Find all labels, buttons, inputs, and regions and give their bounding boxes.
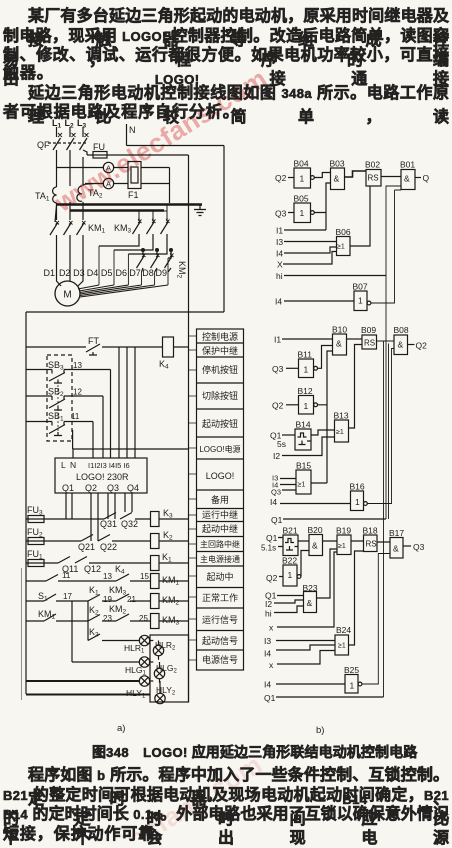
block B18	[364, 535, 378, 552]
svg-text:I2: I2	[265, 599, 272, 609]
svg-text:1: 1	[355, 497, 360, 507]
svg-text:21: 21	[127, 595, 136, 604]
svg-text:B01: B01	[400, 160, 415, 170]
wire motor fan connections	[78, 285, 168, 297]
block B07	[354, 291, 371, 311]
svg-text:I1I2I3 I4I5 I6: I1I2I3 I4I5 I6	[88, 461, 130, 470]
svg-text:5s: 5s	[277, 439, 286, 449]
svg-text:HLR2: HLR2	[155, 640, 176, 652]
relay coil K3	[151, 512, 189, 527]
svg-text:19: 19	[103, 595, 112, 604]
svg-text:FU2: FU2	[27, 527, 43, 539]
wire B05 to B03 I1 join	[284, 183, 331, 230]
wire B24 inputs I3 I4 x	[276, 641, 335, 665]
block B20	[309, 535, 323, 556]
wire B21 to B20 to B19 to B18 to B17	[298, 541, 390, 542]
wire LOGO upper pins	[73, 347, 189, 458]
svg-text:13: 13	[103, 572, 112, 581]
wire B04 to B03	[314, 173, 330, 178]
svg-text:LOGO! 230R: LOGO! 230R	[76, 472, 129, 482]
svg-text:起动按钮: 起动按钮	[202, 418, 238, 429]
block B11	[286, 359, 318, 378]
lamp HLY2	[150, 641, 166, 704]
contactor coil KM2	[151, 594, 189, 609]
svg-text:&: &	[393, 544, 399, 554]
wire B06 out to B02 R	[350, 186, 370, 246]
block B22	[279, 565, 301, 586]
block B09	[362, 335, 377, 349]
svg-text:15: 15	[140, 572, 149, 581]
svg-text:Q12: Q12	[84, 564, 101, 574]
wire lamp row HLG	[72, 601, 139, 662]
svg-text:&: &	[398, 340, 404, 350]
fuse FU1	[26, 560, 58, 567]
svg-text:D2: D2	[59, 268, 71, 278]
svg-text:K1: K1	[89, 585, 99, 597]
svg-text:I4: I4	[270, 497, 277, 507]
motor M1	[55, 281, 80, 306]
svg-text:K3: K3	[163, 508, 173, 520]
contactor coil KM1	[151, 574, 189, 589]
contactor KM3 contacts	[133, 218, 169, 236]
svg-text:I2: I2	[273, 451, 280, 461]
svg-text:B08: B08	[394, 325, 409, 335]
wire B07 input and out	[284, 190, 401, 303]
svg-text:KM3: KM3	[162, 615, 180, 627]
block B15	[296, 470, 311, 494]
svg-text:B25: B25	[344, 665, 359, 675]
block B12	[286, 396, 318, 415]
wire B13 to B09 R	[349, 345, 363, 429]
svg-text:1: 1	[304, 365, 309, 375]
labels section3 blocks	[261, 525, 425, 703]
svg-text:X: X	[277, 260, 283, 270]
breaker QF cross marks	[58, 133, 89, 137]
svg-text:&: &	[336, 339, 342, 349]
svg-text:I3: I3	[276, 237, 283, 247]
svg-text:I4: I4	[275, 297, 282, 307]
wire B10 to B09	[347, 338, 363, 340]
svg-text:Q2: Q2	[266, 573, 278, 583]
wire ammeter row 2	[85, 183, 170, 185]
wire lamp row HLY heavy	[26, 680, 139, 682]
contact Q31 Q32 row	[104, 513, 151, 520]
svg-text:B21: B21	[283, 526, 298, 536]
svg-text:Q3: Q3	[107, 483, 119, 493]
svg-text:K4: K4	[159, 359, 169, 371]
svg-text:起动中继: 起动中继	[202, 523, 238, 534]
svg-text:切除按钮: 切除按钮	[202, 390, 238, 401]
svg-text:Q1: Q1	[264, 693, 276, 703]
ammeter PA1	[103, 162, 113, 172]
svg-text:FU1: FU1	[27, 549, 43, 561]
svg-text:L1: L1	[52, 118, 62, 130]
block B16	[351, 491, 368, 511]
svg-text:SB3: SB3	[48, 360, 64, 372]
pushbutton SB2	[26, 396, 103, 458]
svg-text:&: &	[307, 598, 313, 608]
svg-text:B17: B17	[389, 528, 404, 538]
wire B24 to B18 R	[349, 551, 364, 645]
svg-text:停机按钮: 停机按钮	[202, 364, 238, 375]
wire x to B19	[277, 552, 337, 627]
relay coil K4	[163, 337, 174, 357]
svg-text:a): a)	[117, 723, 125, 734]
labels lamps	[124, 640, 177, 700]
svg-text:12: 12	[73, 388, 82, 397]
ground	[194, 205, 206, 216]
block B23	[304, 592, 317, 613]
svg-text:Q3: Q3	[275, 209, 287, 219]
svg-text:B20: B20	[308, 525, 323, 535]
contact Q21 Q22 row	[81, 535, 151, 542]
svg-text:1: 1	[304, 401, 309, 411]
svg-text:Q3: Q3	[272, 364, 284, 374]
svg-text:KM3: KM3	[114, 223, 132, 235]
block B14 timer	[282, 429, 311, 450]
svg-text:HLY2: HLY2	[156, 685, 176, 697]
svg-text:1: 1	[288, 570, 293, 580]
block B05	[288, 203, 314, 223]
svg-text:D3: D3	[73, 268, 85, 278]
svg-text:B19: B19	[336, 526, 351, 536]
svg-text:B14: B14	[296, 420, 311, 430]
svg-text:HLY1: HLY1	[126, 688, 146, 700]
svg-text:KM2: KM2	[109, 604, 127, 616]
contact KM1 K2 KM2 row KM3 coil	[26, 614, 151, 621]
ammeter PA2	[103, 178, 113, 188]
wire B22 to B20	[301, 551, 309, 577]
svg-text:LOGO!: LOGO!	[206, 471, 235, 481]
svg-text:D7: D7	[129, 268, 141, 278]
label column texts	[199, 331, 240, 665]
wire B23 to B19	[317, 549, 338, 598]
wire B16 input out to B08	[280, 349, 394, 504]
bus heavy 1	[57, 203, 203, 205]
block B02	[366, 170, 381, 187]
rail L right side	[188, 155, 190, 702]
wire B14 to B13	[311, 430, 335, 435]
svg-text:F1: F1	[128, 190, 139, 200]
wire control loop top	[26, 312, 224, 694]
svg-text:RS: RS	[366, 540, 377, 549]
svg-text:B13: B13	[334, 411, 349, 421]
svg-text:KM1: KM1	[162, 575, 180, 587]
svg-text:Q1: Q1	[266, 533, 278, 543]
svg-text:B03: B03	[330, 159, 345, 169]
svg-text:K4: K4	[115, 564, 125, 576]
labels D1-D9	[44, 268, 168, 278]
svg-text:D5: D5	[101, 268, 113, 278]
svg-text:LOGO!电源: LOGO!电源	[199, 444, 240, 454]
svg-text:B16: B16	[350, 482, 365, 492]
svg-text:L3: L3	[77, 118, 87, 130]
svg-text:Q32: Q32	[121, 519, 138, 529]
svg-text:B09: B09	[361, 325, 376, 335]
labels section2 blocks	[270, 325, 427, 526]
svg-text:Q3: Q3	[271, 488, 281, 497]
svg-text:I3: I3	[264, 636, 271, 646]
svg-text:SB2: SB2	[48, 387, 64, 399]
svg-text:1: 1	[350, 681, 355, 691]
paragraph text top	[28, 2, 449, 50]
svg-text:D8: D8	[142, 268, 154, 278]
block B10	[333, 334, 347, 355]
labels section1 blocks	[275, 159, 430, 307]
svg-text:&: &	[312, 541, 318, 551]
block B17	[390, 538, 411, 559]
svg-text:Q: Q	[423, 173, 430, 183]
wire B15 inputs I3 I4 Q3	[280, 479, 296, 491]
svg-text:B06: B06	[336, 227, 351, 237]
svg-text:RS: RS	[364, 339, 375, 348]
svg-text:I4: I4	[264, 680, 271, 690]
svg-text:hi: hi	[276, 271, 283, 281]
watermark www.elecfans.com main	[49, 63, 273, 218]
node labels L1 L2 L3	[52, 118, 87, 130]
svg-text:主回路中继: 主回路中继	[200, 539, 240, 549]
svg-text:&: &	[334, 174, 340, 184]
wire B03 to B02	[345, 171, 367, 177]
svg-text:I4: I4	[276, 249, 283, 259]
svg-text:KM2: KM2	[176, 261, 188, 279]
lamp HLR1	[139, 635, 149, 645]
wire KM3 top feeders	[139, 205, 167, 218]
svg-text:Q2: Q2	[85, 483, 97, 493]
svg-text:保护中继: 保护中继	[202, 345, 238, 356]
svg-text:KM2: KM2	[162, 595, 180, 607]
svg-text:x: x	[269, 660, 274, 670]
svg-text:1: 1	[358, 296, 363, 306]
block B06	[337, 237, 351, 256]
contact 11 and K4 row KM1 coil	[26, 574, 151, 581]
wire D-row feeders D4-D9	[99, 246, 168, 285]
svg-text:≥1: ≥1	[337, 244, 345, 251]
block B01	[401, 170, 421, 190]
svg-text:KM3: KM3	[109, 585, 127, 597]
svg-text:Q31: Q31	[100, 519, 117, 529]
svg-text:备用: 备用	[211, 494, 229, 505]
svg-text:正常工作: 正常工作	[202, 592, 238, 603]
block B25	[345, 675, 362, 694]
pushbutton box dashed	[47, 355, 72, 441]
contactor KM3 cross marks	[138, 220, 170, 224]
breaker QF mechanical link	[48, 142, 88, 144]
svg-text:TA1: TA1	[35, 191, 50, 203]
wire Q1 sec2 bottom	[283, 518, 386, 520]
block B08	[394, 335, 415, 355]
svg-text:起动中: 起动中	[206, 571, 233, 582]
pushbutton SB1	[26, 422, 93, 459]
switch S1 and K1 KM3 contacts row KM2 coil	[26, 594, 151, 601]
svg-text:I1: I1	[274, 335, 281, 345]
label column ticks	[189, 336, 197, 660]
svg-text:Q21: Q21	[78, 542, 95, 552]
svg-text:TA2: TA2	[88, 188, 103, 200]
svg-text:A: A	[106, 180, 111, 189]
fuse FU	[87, 152, 189, 159]
current transformer TA2	[77, 184, 95, 202]
lamp HLG2	[154, 662, 164, 683]
svg-text:S1: S1	[38, 591, 48, 603]
svg-text:1: 1	[300, 208, 305, 218]
wire B23 inputs	[274, 596, 304, 613]
svg-text:B07: B07	[353, 282, 368, 292]
wire B06 inputs I3 I4 X	[283, 242, 337, 265]
svg-text:11: 11	[71, 412, 80, 421]
svg-text:B24: B24	[336, 625, 351, 635]
svg-text:≥1: ≥1	[338, 643, 346, 650]
lamp HLR2	[153, 641, 163, 660]
wire LOGO output pins	[66, 493, 132, 541]
svg-text:≥1: ≥1	[338, 543, 346, 550]
svg-text:RS: RS	[368, 174, 379, 183]
svg-text:KM1: KM1	[38, 609, 56, 621]
current transformer TA1	[53, 187, 57, 203]
svg-text:11: 11	[62, 571, 71, 580]
node N and N rail	[127, 124, 225, 312]
svg-text:L: L	[61, 460, 66, 470]
fuse FU2	[26, 538, 81, 545]
svg-text:I4: I4	[264, 649, 271, 659]
svg-text:23: 23	[103, 614, 112, 623]
wire bottom return heavy	[26, 694, 150, 696]
svg-text:运行信号: 运行信号	[202, 614, 238, 625]
svg-text:D6: D6	[116, 268, 128, 278]
svg-text:B15: B15	[296, 461, 311, 471]
svg-text:Q1: Q1	[271, 515, 283, 525]
svg-text:B23: B23	[303, 583, 318, 593]
contactor KM2 cross marks	[142, 254, 174, 258]
svg-text:I1: I1	[276, 226, 283, 236]
labels row KM1: 11 13 K4 15 KM1	[62, 571, 149, 581]
relay coil K2	[151, 534, 189, 549]
svg-text:K3: K3	[89, 627, 99, 639]
svg-text:B05: B05	[294, 194, 309, 204]
svg-text:B11: B11	[298, 350, 313, 360]
svg-text:K2: K2	[89, 605, 99, 617]
block B19	[337, 535, 351, 555]
svg-text:5.1s: 5.1s	[261, 544, 276, 553]
lamp box	[150, 635, 189, 702]
wire phase L3	[77, 127, 88, 286]
wire I2 to B13	[282, 437, 335, 456]
block B04	[288, 168, 314, 188]
svg-text:&: &	[404, 174, 410, 184]
figure caption	[92, 742, 417, 762]
wire B09 to B08 junction feedbacks	[377, 341, 395, 697]
pushbutton SB3	[26, 370, 111, 459]
svg-text:D9: D9	[156, 268, 168, 278]
contactor KM1 contacts cross marks	[56, 221, 86, 225]
wire hi to B01 via long vertical	[284, 186, 401, 519]
LOGO outputs	[62, 483, 139, 493]
svg-text:N: N	[70, 460, 76, 470]
wire B12 B15 to B10	[311, 351, 333, 483]
lamp HLY1	[139, 676, 149, 686]
relay F1	[128, 162, 141, 189]
svg-text:L2: L2	[65, 118, 75, 130]
svg-text:电源信号: 电源信号	[202, 654, 238, 665]
svg-text:Q3: Q3	[413, 542, 425, 552]
svg-text:Q1: Q1	[62, 483, 74, 493]
svg-text:Q4: Q4	[127, 483, 139, 493]
fuse FU3	[26, 516, 104, 523]
svg-text:QF: QF	[37, 140, 50, 150]
svg-text:D4: D4	[87, 268, 99, 278]
svg-text:K1: K1	[162, 552, 172, 564]
svg-text:运行中继: 运行中继	[202, 509, 238, 520]
wire Q1 sec3 bottom	[276, 696, 384, 698]
svg-text:主电源接通: 主电源接通	[200, 554, 240, 564]
svg-text:HLG2: HLG2	[156, 663, 177, 675]
svg-text:B12: B12	[298, 386, 313, 396]
svg-text:D1: D1	[44, 268, 56, 278]
wire B02 to B01	[381, 176, 401, 178]
svg-text:25: 25	[139, 614, 148, 623]
label column frame	[197, 329, 244, 670]
paragraph text bottom	[28, 761, 449, 809]
block B13	[335, 420, 349, 442]
contactor coil KM3	[151, 614, 189, 629]
contact K3 row lamps HLR	[88, 601, 139, 641]
svg-text:B02: B02	[365, 160, 380, 170]
svg-text:B18: B18	[363, 526, 378, 536]
svg-text:Q2: Q2	[272, 401, 284, 411]
svg-text:K2: K2	[163, 530, 173, 542]
thermal contact FT	[86, 344, 100, 355]
svg-text:B04: B04	[294, 159, 309, 169]
PLC LOGO 230R	[55, 458, 147, 493]
wire phase L2	[64, 127, 75, 281]
scan artifact left edge	[21, 568, 23, 700]
lamp HLG1	[139, 657, 149, 667]
wire control source row with FT	[26, 346, 189, 348]
junction dots KM2 row	[142, 249, 173, 252]
svg-text:SB1: SB1	[48, 411, 64, 423]
svg-text:b): b)	[316, 725, 324, 736]
svg-text:Q22: Q22	[100, 542, 117, 552]
block B24	[335, 635, 349, 655]
svg-text:1: 1	[300, 174, 305, 184]
wire B25 input I4 out to B17	[276, 554, 390, 685]
svg-text:x: x	[269, 623, 274, 633]
svg-text:17: 17	[63, 592, 72, 601]
svg-text:起动信号: 起动信号	[202, 635, 238, 646]
relay coil K1	[151, 556, 189, 571]
svg-text:KM1: KM1	[88, 223, 106, 235]
svg-text:控制电源: 控制电源	[202, 331, 238, 342]
wire phase L1	[50, 127, 61, 286]
svg-text:A: A	[106, 164, 111, 173]
svg-text:N: N	[129, 125, 136, 135]
svg-text:≥1: ≥1	[298, 482, 306, 489]
contact Q11 Q12 row	[58, 557, 151, 564]
wire ammeter row 1	[57, 168, 170, 204]
svg-text:≥1: ≥1	[336, 429, 344, 436]
svg-text:Q2: Q2	[275, 173, 287, 183]
wire B11 to B10	[318, 346, 333, 369]
block B03	[331, 168, 345, 190]
svg-text:M: M	[63, 290, 71, 301]
watermark www.elecfans.com bottom faint	[44, 749, 268, 848]
wire I1 to B10	[282, 338, 333, 340]
block B21 timer	[278, 535, 298, 556]
wire KM3 to D4 D5 D6 bends	[99, 236, 171, 258]
svg-text:B10: B10	[332, 325, 347, 335]
svg-text:Q2: Q2	[416, 341, 428, 351]
svg-text:B22: B22	[282, 556, 297, 566]
